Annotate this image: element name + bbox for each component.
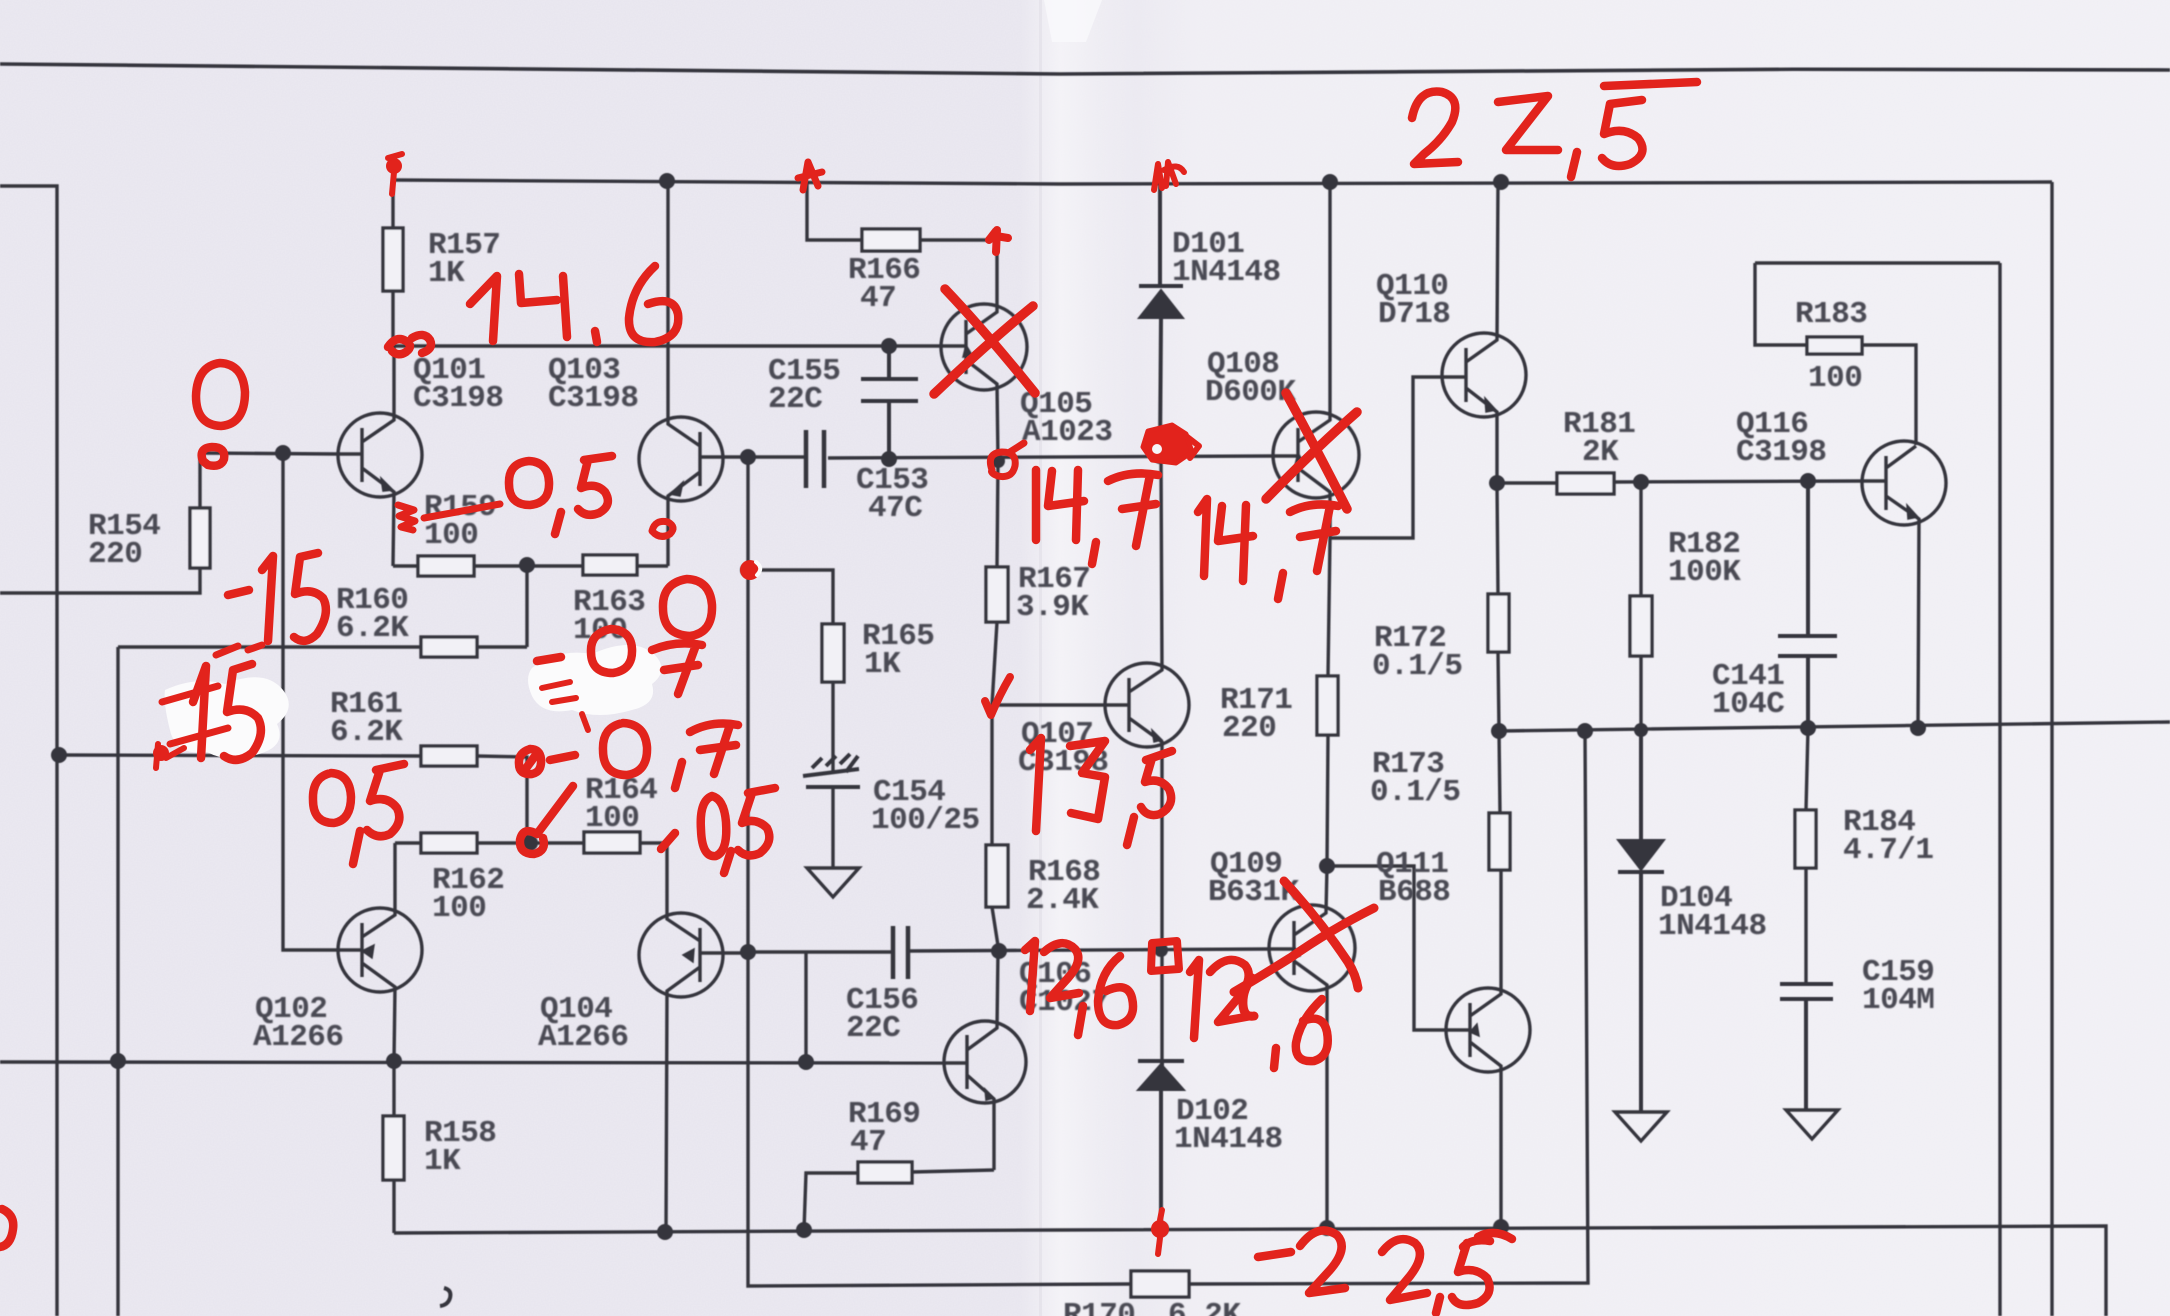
resistor R181 [1557,473,1614,494]
red note 12,6 second [1190,960,1199,1038]
capacitor C156 [893,926,908,979]
node junction bus1-R161 [51,747,67,763]
red note -22,5 [1258,1252,1291,1257]
node junction R181 row-C141 [1800,473,1816,489]
red note 0 big [663,579,712,636]
red note 15 over whiteout [162,686,228,744]
node junction rail-Q104 [657,1224,673,1240]
capacitor C153 [806,430,824,488]
svg-text:R183: R183 [1795,297,1867,332]
svg-text:100: 100 [424,518,478,553]
node junction feedback-C156 row [740,944,756,960]
wire left vertical bus 2 [116,647,119,1316]
node junction rail-R169 [796,1222,812,1238]
svg-text:B688: B688 [1378,875,1450,910]
transistor Q109 [1269,905,1355,991]
wire input row [200,453,338,454]
red slash-loop R164 [520,786,573,854]
svg-text:A1023: A1023 [1022,415,1113,450]
resistor R183 loop [1755,263,2000,445]
wire inverting input vertical [283,453,338,950]
transistor Q104 (mirrored) [639,913,723,997]
svg-text:1K: 1K [424,1144,461,1179]
red check Q107 base [985,677,1010,715]
wire bottom negative rail [394,1226,2106,1316]
capacitor C154 electrolytic [803,754,860,787]
svg-text:C3198: C3198 [413,381,504,416]
svg-text:22C: 22C [768,382,822,417]
svg-text:1N4148: 1N4148 [1174,1122,1283,1157]
transistor Q105 [941,304,1027,390]
ground below C159 [1786,1110,1838,1139]
node junction bus2 y1061 [110,1053,126,1069]
red note 0,5 second [313,773,351,823]
resistor R158 [392,1061,395,1233]
red note 0 at input [196,363,245,426]
red square D102 junction [1151,941,1179,971]
ground below C154 [807,868,859,897]
wire Q110 base link [1330,377,1442,538]
resistor R168 [992,705,999,952]
wire right vertical from rail [2050,182,2053,1316]
ground below D104 [1615,1112,1667,1141]
svg-text:0.1/5: 0.1/5 [1370,775,1461,810]
transistor Q111 [1446,988,1530,1072]
node junction Q102-R158 [386,1053,402,1069]
wire C141 output row [1499,722,2170,731]
transistor Q103 (mirrored) [639,417,723,501]
resistor R170 [1131,1271,1189,1297]
node junction rail-Q109 [1319,1220,1335,1236]
svg-text:100/25: 100/25 [871,803,980,838]
red note 22,5 top [1412,92,1458,164]
wire R159/R163 to R160 [525,565,528,647]
resistor R159 [418,556,474,576]
svg-text:100: 100 [1808,361,1862,396]
red dot rail-D102 [1151,1220,1169,1238]
wire top border line [0,64,2170,74]
node junction C155 bottom [881,451,897,467]
svg-text:4.7/1: 4.7/1 [1843,833,1934,868]
resistor R167 [992,461,998,705]
red arrow rail x807 [798,162,822,190]
red note 14.6 [470,276,497,341]
transistor Q107 [1105,663,1189,747]
red arrow R166 right [989,230,1008,252]
svg-text:2.4K: 2.4K [1026,883,1099,918]
resistor R184 [1806,728,1808,982]
capacitor C159 [1780,984,1833,1110]
svg-text:1N4148: 1N4148 [1658,909,1767,944]
red input tick [202,447,225,466]
node junction C141 row-R170 riser [1577,723,1593,739]
printed comma mark [440,1288,450,1306]
red note 13,5 [1030,738,1041,831]
red arrow-dot R161 left [153,745,169,761]
wire feedback vertical x748 [748,457,1131,1286]
red strike R159 [424,504,500,518]
resistor R172 [1497,483,1499,731]
svg-text:100: 100 [585,801,639,836]
node junction Q109 collector [1319,858,1335,874]
svg-text:47: 47 [850,1125,886,1160]
transistor Q102 [338,908,422,992]
capacitor C155 [861,346,918,460]
red note 14,7 second [1198,499,1207,576]
resistor R165 stub [748,570,833,772]
svg-text:0.1/5: 0.1/5 [1372,649,1463,684]
node junction rail-D102 [1153,1221,1169,1237]
red circle-dash R161 row [519,749,575,774]
red junction blob C153-D101 [1143,425,1192,463]
svg-text:100: 100 [432,891,486,926]
svg-text:C3198: C3198 [1736,435,1827,470]
resistor R160 [421,637,477,657]
transistor Q106 [944,1021,1026,1103]
svg-text:A1266: A1266 [538,1020,629,1055]
svg-text:22C: 22C [846,1011,900,1046]
node junction Q103 base node [740,449,756,465]
svg-text:6.2K: 6.2K [1168,1298,1241,1316]
resistor R171 [1327,538,1330,866]
red note 14,7 first [1032,470,1041,540]
node junction rail-Q110 [1493,174,1509,190]
resistor R163 [583,555,637,575]
wire R160 row [118,645,527,648]
wire right vertical from R183 loop [1998,263,2001,1316]
wire left feed corner [0,186,57,1316]
node junction C155 top [881,338,897,354]
capacitor C141 [1778,481,1837,728]
resistor R164 [584,832,640,853]
resistor R161 [421,746,477,766]
transistor Q108 [1273,412,1359,498]
node junction C141 row-Q116 emitter [1910,720,1926,736]
svg-text:104M: 104M [1862,983,1934,1018]
svg-text:100K: 100K [1668,555,1741,590]
whiteout patch under 0,7 [528,645,662,715]
transistor Q101 [338,413,422,497]
svg-text:C3198: C3198 [548,381,639,416]
svg-text:1K: 1K [864,647,901,682]
svg-text:47C: 47C [868,491,922,526]
diode D102 [1138,1060,1184,1230]
red dot rail left [386,158,402,174]
node junction row-D102 line [1154,943,1168,957]
wire +22.5V power rail [393,180,2052,184]
red X over Q109 [1234,881,1374,1016]
svg-text:1K: 1K [428,256,465,291]
wire R161 row [59,755,527,843]
node junction rail-Q103 [659,173,675,189]
transistor Q110 [1442,333,1526,417]
node junction rail-Q108 [1322,174,1338,190]
resistor R169 [804,1170,994,1230]
whiteout patch under 15 [165,677,289,758]
red scribble Q101 emitter [398,505,415,530]
node junction R162-R164 [522,835,538,851]
diode D101 [1139,182,1183,457]
svg-text:A1266: A1266 [253,1020,344,1055]
svg-text:47: 47 [860,281,896,316]
wire Q111 base link [1327,866,1447,1030]
red note 0,5 third [701,796,727,856]
resistor R173 [1499,731,1501,870]
diode D104 [1618,732,1664,1112]
red dot feedback-R165 junction [740,560,760,580]
resistor R162 [421,833,477,853]
svg-text:D718: D718 [1378,297,1450,332]
red dot Q103 bottom [652,521,673,536]
red tick R164 right [661,833,675,849]
wire Q101 collector row y346 [393,344,941,347]
wire R181 base row [1497,481,1862,483]
svg-text:6.2K: 6.2K [330,715,403,750]
resistor R154 [0,453,200,593]
svg-text:1N4148: 1N4148 [1172,255,1281,290]
red junction loop C153-R167 [990,443,1024,477]
svg-text:220: 220 [1222,711,1276,746]
node junction row-R167 [991,454,1005,468]
node junction C156-R168 [991,943,1007,959]
wire emitter row y1061 [0,1062,946,1063]
svg-text:104C: 104C [1712,687,1784,722]
node junction row-D101 [1153,450,1167,464]
wire R162-R164 row [395,841,667,844]
svg-text:2K: 2K [1582,435,1619,470]
transistor Q116 [1862,441,1946,525]
red arc left edge bottom [0,1209,13,1247]
node junction C141 row-R182 [1634,723,1648,737]
center fold crease [1020,0,1136,1316]
node junction rail-Q111 [1493,1219,1509,1235]
resistor R182 [1639,482,1642,730]
red scribble rail-D101 [1154,162,1184,190]
red note 0,7 second [603,723,647,775]
wire C156/Q109 base row [748,949,1270,952]
node junction feedback-R165 [740,562,756,578]
wire emitter row R159-R163 [393,564,668,567]
svg-text:3.9K: 3.9K [1016,590,1089,625]
red note 0,5 first [509,461,549,505]
svg-text:220: 220 [88,537,142,572]
node input junction [275,445,291,461]
red note 12,6 first [1025,941,1035,1011]
red scribble R157 junction [388,335,431,354]
node junction base row x806 [798,1054,814,1070]
wire C153 signal row [745,456,1273,458]
resistor R157 [391,180,394,346]
svg-text:6.2K: 6.2K [336,611,409,646]
red note -15 [228,590,249,595]
red note -0,7 over whiteout [537,657,561,661]
node junction Q110 emitter [1489,475,1505,491]
svg-text:R170: R170 [1063,1298,1135,1316]
resistor R166 [807,181,997,240]
node junction R181-R182 [1633,474,1649,490]
wire C156 left leg [804,952,807,1062]
red X over Q108 [1266,393,1357,509]
node junction C141 row-R184 [1800,720,1816,736]
node junction R159-R163 [519,557,535,573]
red X over Q105 [934,289,1035,394]
node junction C141 row-Q110 chain [1491,723,1507,739]
